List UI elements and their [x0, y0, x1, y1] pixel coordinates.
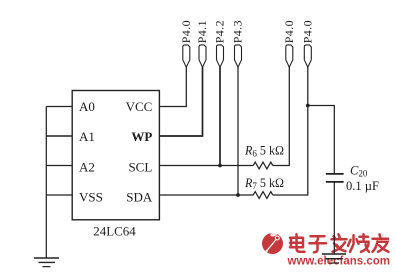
svg-text:A0: A0 [79, 99, 95, 114]
svg-text:P4.0: P4.0 [179, 20, 193, 43]
svg-text:A1: A1 [79, 129, 95, 144]
svg-text:P4.3: P4.3 [231, 20, 245, 43]
svg-text:A2: A2 [79, 159, 95, 174]
svg-text:P4.2: P4.2 [213, 20, 227, 43]
svg-text:www.elecfans.com: www.elecfans.com [287, 255, 390, 267]
svg-text:P4.0: P4.0 [282, 20, 296, 43]
svg-text:P4.1: P4.1 [195, 20, 209, 43]
svg-text:SDA: SDA [126, 190, 153, 205]
svg-text:WP: WP [131, 129, 152, 144]
svg-text:VCC: VCC [126, 99, 153, 114]
svg-text:R7 5 kΩ: R7 5 kΩ [244, 176, 284, 191]
svg-text:R6 5 kΩ: R6 5 kΩ [244, 143, 284, 158]
svg-text:SCL: SCL [128, 159, 152, 174]
svg-text:0.1 µF: 0.1 µF [346, 179, 379, 193]
svg-text:24LC64: 24LC64 [93, 223, 136, 238]
svg-text:VSS: VSS [79, 190, 103, 205]
svg-text:C20: C20 [350, 164, 368, 179]
svg-text:P4.0: P4.0 [301, 20, 315, 43]
